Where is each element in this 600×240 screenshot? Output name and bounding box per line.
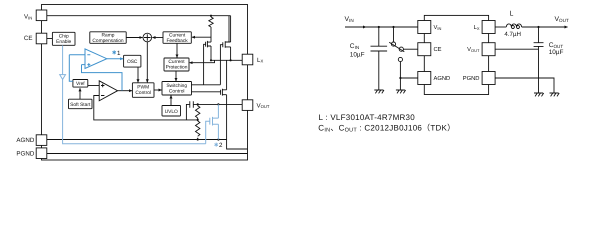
svg-text:Current: Current	[168, 59, 185, 65]
svg-text:PGND: PGND	[463, 75, 480, 82]
svg-text:2: 2	[219, 142, 223, 149]
svg-text:COUT: COUT	[549, 42, 564, 49]
svg-text:LX: LX	[257, 57, 263, 64]
svg-text:PGND: PGND	[16, 150, 34, 157]
svg-text:L: L	[510, 10, 514, 17]
svg-text:Switching: Switching	[166, 83, 187, 89]
svg-text:10µF: 10µF	[549, 49, 564, 56]
svg-text:PWM: PWM	[137, 85, 149, 91]
svg-text:VIN: VIN	[434, 25, 442, 31]
svg-text:Vref: Vref	[76, 81, 85, 87]
svg-text:CIN: CIN	[350, 43, 359, 50]
svg-text:OSC: OSC	[127, 59, 138, 65]
svg-text:L : VLF3010AT-4R7MR30: L : VLF3010AT-4R7MR30	[319, 113, 416, 122]
svg-text:CE: CE	[24, 35, 33, 42]
svg-text:Control: Control	[135, 90, 151, 96]
svg-text:Control: Control	[169, 89, 185, 95]
svg-text:VIN: VIN	[345, 16, 354, 23]
svg-text:Ramp: Ramp	[102, 33, 115, 39]
svg-text:AGND: AGND	[434, 75, 451, 82]
svg-text:Enable: Enable	[56, 39, 71, 45]
svg-text:UVLO: UVLO	[165, 109, 178, 115]
svg-text:1: 1	[117, 50, 121, 57]
svg-text:4.7µH: 4.7µH	[504, 31, 521, 38]
svg-text:VOUT: VOUT	[555, 16, 569, 23]
svg-text:VOUT: VOUT	[257, 102, 270, 109]
svg-text:Current: Current	[169, 33, 186, 39]
svg-text:AGND: AGND	[16, 137, 34, 144]
svg-text:Protection: Protection	[166, 64, 188, 70]
svg-text:CE: CE	[434, 46, 442, 53]
svg-text:Soft Start: Soft Start	[70, 102, 91, 108]
svg-text:Feedback: Feedback	[166, 38, 188, 44]
svg-text:VOUT: VOUT	[467, 47, 480, 53]
svg-text:Chip: Chip	[59, 34, 69, 40]
svg-text:VIN: VIN	[24, 13, 32, 20]
svg-text:CIN、COUT : C2012JB0J106（TDK）: CIN、COUT : C2012JB0J106（TDK）	[318, 123, 455, 133]
svg-text:10µF: 10µF	[350, 52, 365, 59]
svg-text:LX: LX	[474, 25, 480, 31]
svg-text:Compensation: Compensation	[92, 38, 124, 44]
